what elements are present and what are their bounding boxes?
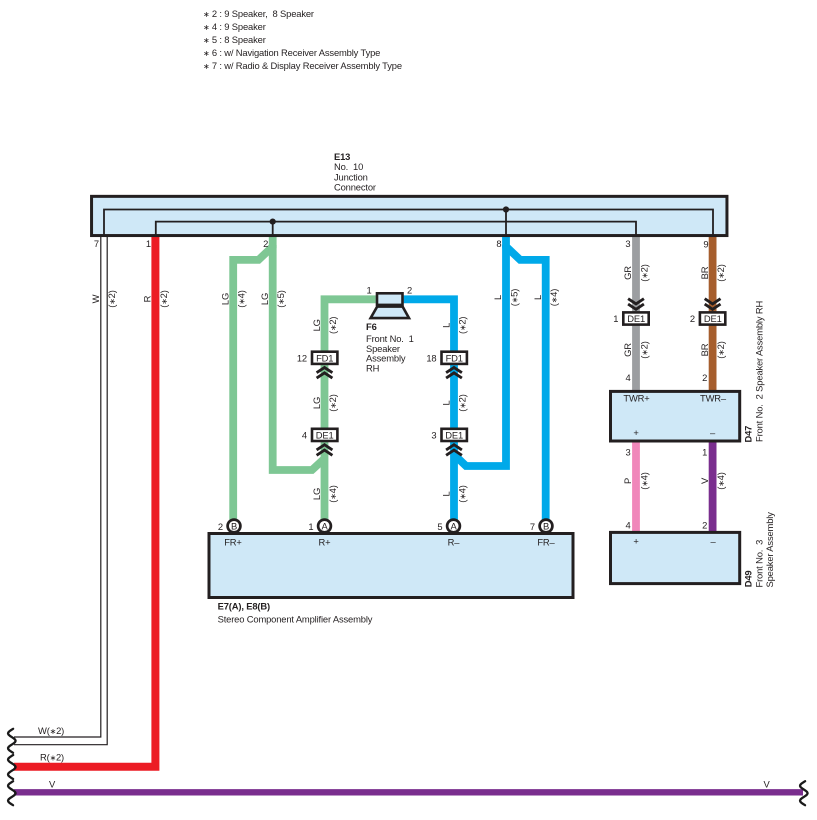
svg-text:GR: GR [622, 343, 633, 357]
svg-text:1: 1 [366, 285, 371, 296]
svg-text:4: 4 [626, 372, 631, 383]
svg-text:+: + [633, 427, 639, 438]
svg-text:R+: R+ [319, 536, 332, 547]
svg-text:7: 7 [530, 521, 535, 532]
svg-text:(∗5): (∗5) [275, 290, 286, 307]
svg-text:A: A [450, 520, 457, 531]
svg-text:8: 8 [496, 238, 501, 249]
svg-text:V: V [699, 477, 710, 484]
svg-text:(∗4): (∗4) [548, 289, 559, 306]
svg-text:W: W [90, 294, 101, 303]
svg-text:E7(A), E8(B): E7(A), E8(B) [218, 601, 270, 612]
svg-text:L: L [492, 295, 503, 300]
svg-text:FR–: FR– [537, 536, 555, 547]
svg-text:1: 1 [308, 521, 313, 532]
svg-text:TWR+: TWR+ [623, 393, 650, 404]
svg-text:BR: BR [699, 343, 710, 356]
svg-text:∗ 4 : 9 Speaker: ∗ 4 : 9 Speaker [203, 21, 266, 32]
svg-text:DE1: DE1 [627, 313, 645, 324]
svg-text:2: 2 [263, 238, 268, 249]
svg-text:RH: RH [366, 362, 379, 373]
svg-text:A: A [321, 520, 328, 531]
svg-text:(∗4): (∗4) [715, 472, 726, 489]
svg-text:(∗2): (∗2) [106, 290, 117, 307]
svg-text:W(∗2): W(∗2) [38, 725, 64, 736]
svg-text:3: 3 [625, 238, 630, 249]
svg-text:2: 2 [218, 521, 223, 532]
svg-text:L: L [440, 323, 451, 328]
svg-text:D47: D47 [743, 426, 754, 443]
svg-text:R: R [142, 295, 153, 302]
svg-text:2: 2 [702, 519, 707, 530]
svg-text:(∗4): (∗4) [236, 290, 247, 307]
svg-text:(∗2): (∗2) [456, 317, 467, 334]
svg-text:GR: GR [622, 266, 633, 280]
svg-text:(∗2): (∗2) [715, 264, 726, 281]
svg-text:L: L [440, 400, 451, 405]
svg-text:9: 9 [703, 239, 708, 250]
svg-text:Stereo Component Amplifier Ass: Stereo Component Amplifier Assembly [218, 613, 373, 624]
svg-text:Connector: Connector [334, 182, 376, 193]
svg-text:2: 2 [690, 313, 695, 324]
svg-text:7: 7 [94, 238, 99, 249]
svg-text:LG: LG [311, 397, 322, 409]
svg-text:D49: D49 [743, 571, 754, 588]
svg-text:R–: R– [448, 536, 461, 547]
svg-text:12: 12 [297, 352, 307, 363]
svg-text:4: 4 [626, 519, 631, 530]
svg-text:LG: LG [311, 488, 322, 500]
svg-text:18: 18 [426, 352, 436, 363]
svg-text:No. 10: No. 10 [334, 161, 363, 172]
svg-text:BR: BR [699, 266, 710, 279]
svg-text:∗ 6 : w/ Navigation Receiver A: ∗ 6 : w/ Navigation Receiver Assembly Ty… [203, 47, 380, 58]
svg-text:LG: LG [219, 293, 230, 305]
svg-text:∗ 7 : w/ Radio & Display Recei: ∗ 7 : w/ Radio & Display Receiver Assemb… [203, 60, 402, 71]
svg-text:B: B [543, 520, 549, 531]
svg-text:+: + [633, 536, 639, 547]
svg-text:(∗2): (∗2) [158, 290, 169, 307]
svg-text:L: L [532, 295, 543, 300]
svg-text:1: 1 [613, 313, 618, 324]
svg-text:(∗4): (∗4) [638, 472, 649, 489]
svg-text:4: 4 [302, 429, 307, 440]
svg-text:Speaker Assembly: Speaker Assembly [764, 512, 775, 588]
svg-text:DE1: DE1 [316, 430, 334, 441]
svg-text:(∗2): (∗2) [638, 264, 649, 281]
svg-text:LG: LG [311, 319, 322, 331]
svg-text:(∗4): (∗4) [456, 485, 467, 502]
svg-text:V: V [764, 779, 771, 790]
svg-text:TWR–: TWR– [700, 393, 727, 404]
svg-text:(∗2): (∗2) [327, 317, 338, 334]
svg-text:DE1: DE1 [445, 430, 463, 441]
svg-text:1: 1 [146, 238, 151, 249]
svg-text:F6: F6 [366, 321, 377, 332]
svg-text:P: P [622, 478, 633, 484]
svg-text:R(∗2): R(∗2) [40, 752, 64, 763]
svg-text:2: 2 [407, 285, 412, 296]
svg-text:FD1: FD1 [316, 353, 333, 364]
svg-text:FR+: FR+ [224, 536, 242, 547]
svg-text:(∗2): (∗2) [715, 341, 726, 358]
svg-text:Front No. 2 Speaker Assembly: Front No. 2 Speaker Assembly RH [754, 301, 765, 442]
svg-text:5: 5 [437, 521, 442, 532]
svg-text:2: 2 [702, 372, 707, 383]
svg-text:V: V [49, 779, 56, 790]
svg-text:(∗5): (∗5) [508, 289, 519, 306]
svg-text:3: 3 [626, 447, 631, 458]
svg-text:L: L [440, 491, 451, 496]
svg-text:DE1: DE1 [704, 313, 722, 324]
svg-text:B: B [231, 520, 237, 531]
svg-text:1: 1 [702, 447, 707, 458]
svg-text:∗ 2 : 9 Speaker, 8 Speaker: ∗ 2 : 9 Speaker, 8 Speaker [203, 8, 314, 19]
svg-text:(∗2): (∗2) [456, 394, 467, 411]
svg-text:LG: LG [259, 293, 270, 305]
svg-text:(∗4): (∗4) [327, 485, 338, 502]
svg-text:FD1: FD1 [446, 353, 463, 364]
svg-text:(∗2): (∗2) [638, 341, 649, 358]
svg-text:(∗2): (∗2) [327, 394, 338, 411]
svg-text:3: 3 [431, 429, 436, 440]
svg-text:∗ 5 : 8 Speaker: ∗ 5 : 8 Speaker [203, 34, 266, 45]
